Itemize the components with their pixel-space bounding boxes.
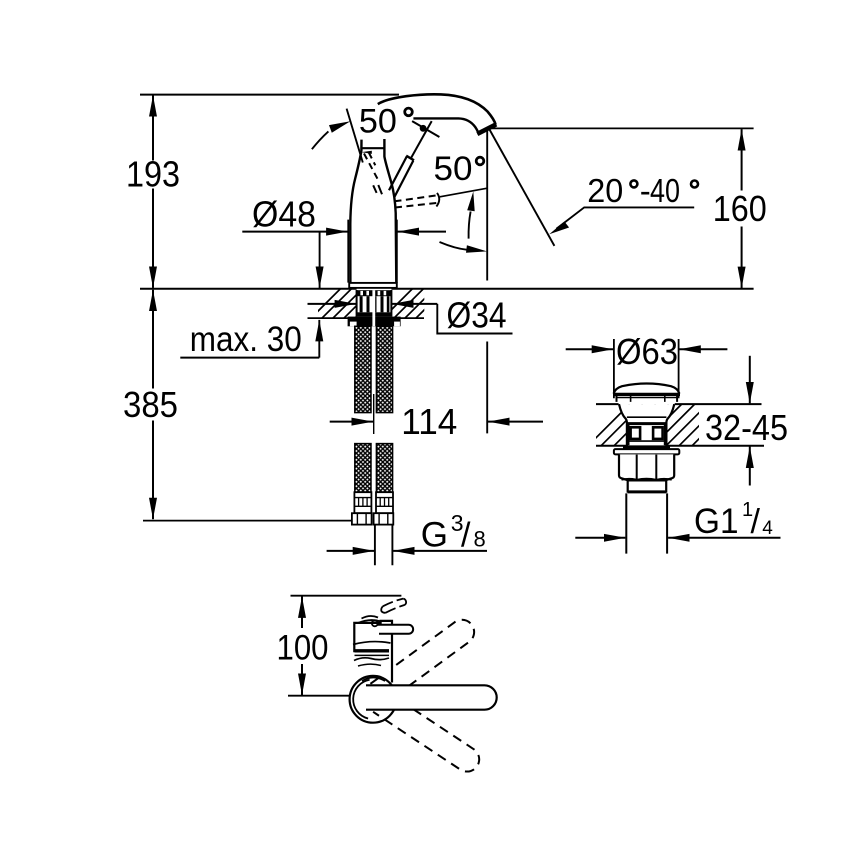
svg-text:4: 4 [762, 518, 773, 539]
svg-text:G1: G1 [694, 502, 739, 541]
svg-text:114: 114 [401, 401, 457, 442]
svg-text:50: 50 [359, 102, 397, 140]
svg-text:Ø48: Ø48 [252, 194, 316, 235]
svg-text:385: 385 [123, 384, 178, 425]
svg-text:/: / [461, 517, 471, 555]
svg-text:40: 40 [650, 172, 680, 209]
svg-text:max. 30: max. 30 [190, 320, 302, 359]
svg-text:32-45: 32-45 [705, 407, 788, 448]
svg-text:Ø63: Ø63 [616, 331, 678, 372]
svg-text:G: G [421, 516, 448, 555]
svg-text:/: / [751, 503, 761, 541]
svg-text:Ø34: Ø34 [447, 295, 507, 336]
svg-text:100: 100 [277, 629, 329, 668]
svg-text:160: 160 [713, 188, 767, 229]
svg-text:20: 20 [587, 172, 623, 209]
svg-text:193: 193 [126, 154, 180, 195]
svg-text:50: 50 [434, 150, 473, 188]
svg-text:8: 8 [474, 526, 486, 551]
